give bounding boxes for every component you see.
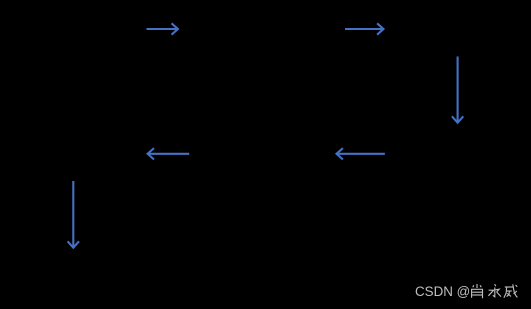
watermark glyph 永: [488, 284, 501, 297]
arrow A2 (top-right, pointing right): [345, 23, 384, 34]
arrow A3 (right side, pointing down): [452, 57, 463, 123]
arrow A1 (top-left, pointing right): [147, 23, 178, 34]
arrow A6 (bottom-left, pointing down): [68, 181, 79, 248]
arrow A5 (middle-right, pointing left): [337, 148, 385, 159]
watermark glyph 肖: [472, 284, 483, 298]
svg-text:CSDN @: CSDN @: [415, 284, 470, 299]
watermark glyph 威: [504, 284, 518, 298]
arrow A4 (middle-left, pointing left): [148, 148, 190, 159]
